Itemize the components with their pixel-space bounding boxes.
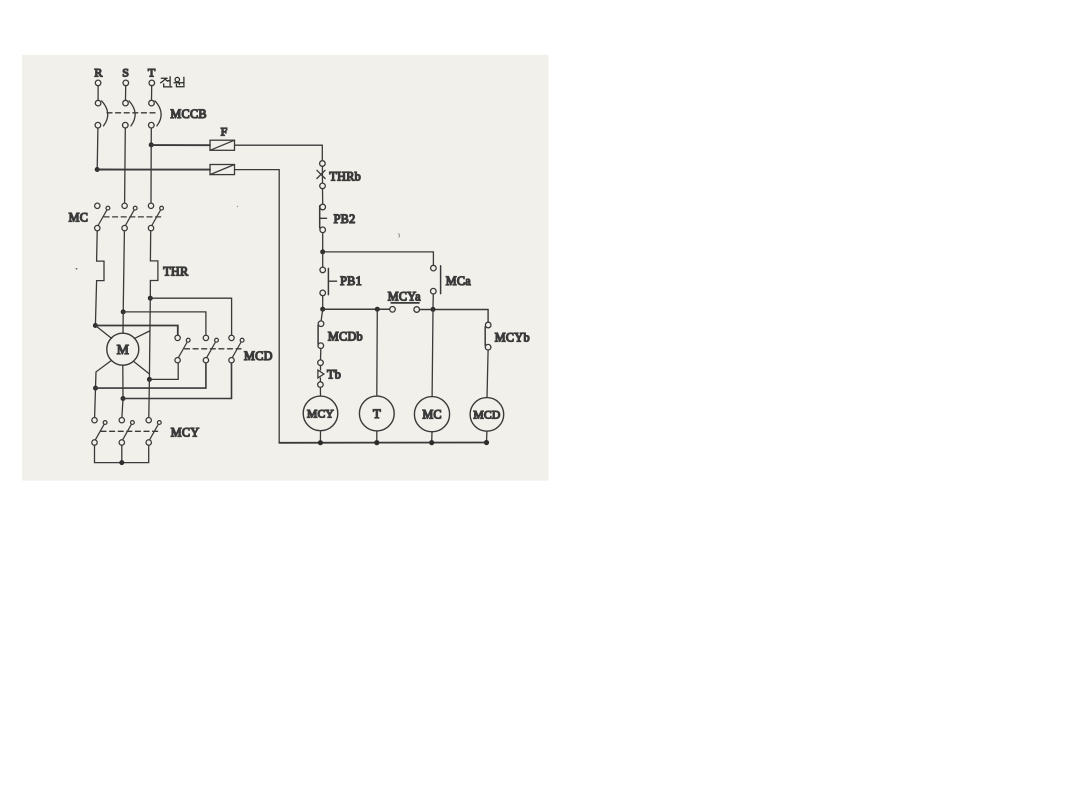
wire motor lead bottom (S phase out) — [122, 365, 124, 398]
wire MC T to heater — [149, 231, 151, 261]
svg-text:MC: MC — [422, 408, 441, 422]
svg-text:PB1: PB1 — [340, 274, 362, 288]
svg-text:Tb: Tb — [327, 368, 341, 382]
node S to MCD pole3 bottom — [121, 396, 126, 401]
svg-text:MCYa: MCYa — [388, 289, 421, 303]
wire MCD coil to bus — [486, 431, 488, 442]
wire node to MCD pole3 bottom — [123, 363, 232, 398]
svg-text:MCa: MCa — [446, 274, 472, 288]
wire MC branch down — [431, 309, 434, 396]
svg-text:T: T — [373, 407, 381, 421]
svg-text:R: R — [94, 65, 102, 79]
wire MC coil to bus — [431, 432, 433, 443]
fuse F1 — [210, 140, 235, 150]
paper speck — [237, 206, 238, 207]
wire fuse F1 to THRb corner — [235, 145, 323, 161]
wire control feed 1 to fuse — [151, 144, 210, 146]
wire node to MCa branch — [323, 252, 434, 265]
wire phase R MCCB to node — [96, 128, 99, 170]
wire node to MCD pole2 bottom — [96, 363, 206, 388]
node MCY star point — [119, 460, 124, 465]
fuse F2 — [210, 165, 235, 175]
wire control feed 2 to fuse — [97, 169, 210, 171]
svg-text:MCDb: MCDb — [328, 330, 363, 344]
svg-text:MCD: MCD — [473, 409, 500, 422]
wire node to MCD pole1 bottom — [149, 363, 178, 379]
heater THR T phase — [150, 261, 158, 281]
coil MCY — [303, 396, 338, 431]
node junction R / control feed 2 — [95, 167, 100, 172]
node rail left — [320, 307, 325, 312]
wire MC S down — [123, 231, 124, 312]
svg-text:MCY: MCY — [307, 408, 334, 421]
wire node R to MCD pole1 top — [95, 326, 177, 336]
node PB2 out — [320, 249, 325, 254]
wire MCDb to Tb — [320, 349, 322, 360]
paper speck — [398, 234, 401, 238]
node S phase to MCD — [121, 309, 126, 314]
contactor MCY pole 2 — [119, 418, 134, 446]
motor M circle — [107, 333, 139, 365]
svg-text:MC: MC — [69, 210, 89, 224]
wire S phase to MCY pole2 — [122, 399, 123, 418]
breaker MCCB pole R — [95, 100, 108, 128]
svg-text:M: M — [117, 342, 129, 357]
wire T coil to bus — [376, 431, 378, 443]
coil MCD — [470, 398, 504, 432]
wire bottom bus — [279, 442, 486, 444]
contactor MCY pole 3 — [146, 418, 161, 446]
breaker MCCB pole S — [123, 100, 136, 128]
node bus MC — [429, 440, 434, 445]
wire motor lead upper-right diagonal — [134, 331, 149, 339]
wire — [125, 86, 127, 101]
wire MCa to rail — [432, 294, 434, 307]
wire motor lead lower-left diagonal — [96, 360, 112, 388]
heater THR R phase — [97, 261, 104, 281]
contact Tb (timer delayed) — [318, 360, 324, 388]
pushbutton PB2 (NC) — [320, 204, 327, 232]
contactor MCD pole 2 — [203, 335, 218, 363]
node rail T branch — [375, 307, 380, 312]
wire THRb to PB2 — [322, 189, 324, 205]
MCY linkage dashed line — [101, 430, 159, 432]
wire PB2 to node — [322, 233, 324, 252]
coil T — [359, 396, 394, 431]
svg-text:MCD: MCD — [244, 349, 273, 363]
breaker MCCB pole T — [149, 100, 162, 128]
contact MCYb (NC) — [485, 322, 491, 350]
node R phase to MCD — [93, 323, 98, 328]
wire node to PB1 — [322, 252, 324, 267]
wire motor lead top (S phase in) — [122, 312, 124, 333]
svg-text:F: F — [221, 125, 228, 139]
node rail MC branch — [431, 307, 436, 312]
MCD linkage dashed line — [185, 348, 242, 350]
wire — [97, 86, 99, 101]
svg-text:MCY: MCY — [171, 425, 200, 439]
contact THRb (thermal relay NC) — [317, 161, 325, 189]
terminal S — [123, 80, 129, 86]
wire heater T to node — [149, 281, 151, 299]
contact MCa (NO auxiliary) — [431, 265, 441, 294]
MCCB linkage dashed line — [107, 112, 157, 114]
node bus MCD — [484, 440, 489, 445]
wire T phase to MCY pole3 — [148, 379, 151, 417]
contactor MCD pole 3 — [229, 335, 244, 363]
wire rail right segment — [420, 310, 489, 323]
svg-text:T: T — [148, 65, 156, 79]
contactor MCY pole 1 — [92, 418, 107, 446]
wire phase T MCCB to node — [150, 128, 152, 145]
wire MCY coil to bus — [319, 431, 321, 443]
svg-text:MCCB: MCCB — [170, 107, 206, 121]
wire heater R to node — [95, 281, 96, 326]
wire phase S down — [124, 128, 127, 203]
wire R phase to MCY pole1 — [94, 388, 97, 417]
contact MCYa (NO) horizontal — [390, 303, 420, 312]
node T phase to MCD — [148, 296, 153, 301]
contactor MC pole R — [95, 203, 110, 231]
wire rail left segment — [323, 308, 390, 310]
wire node S to MCD pole2 top — [123, 312, 206, 335]
label 전원 (power source), hand-drawn hangul — [161, 77, 185, 87]
wire T branch down — [376, 309, 379, 396]
coil MC — [414, 397, 449, 432]
contactor MC pole S — [122, 203, 137, 231]
paper speck — [76, 268, 78, 270]
node T to MCD pole1 bottom — [147, 377, 152, 382]
wire node T to MCD pole3 top — [150, 298, 231, 335]
svg-text:S: S — [122, 65, 129, 79]
contactor MC pole T — [148, 203, 163, 231]
wire MC R to heater — [96, 231, 99, 261]
node junction T / control feed 1 — [149, 142, 154, 147]
wire motor lead upper-left diagonal — [95, 326, 111, 339]
terminal R — [95, 80, 101, 86]
svg-text:THR: THR — [163, 265, 189, 279]
wire phase T node to MC — [150, 145, 152, 203]
MC linkage dashed line — [104, 216, 162, 218]
wire Tb to MCY coil — [319, 387, 321, 396]
node R to MCD pole2 bottom — [93, 386, 98, 391]
wire MCYb to MCD coil — [487, 350, 488, 398]
contactor MCD pole 1 — [175, 335, 190, 363]
wire PB1 to rail — [322, 296, 324, 307]
wire motor lead lower-right diagonal — [134, 362, 149, 374]
wire rail to MCDb — [321, 309, 323, 321]
svg-text:MCYb: MCYb — [495, 331, 530, 345]
wire T phase through motor region — [148, 298, 151, 379]
contact MCDb (NC) — [318, 321, 324, 349]
node bus MCY — [318, 440, 323, 445]
node bus T — [374, 440, 379, 445]
wire fuse F2 to left return line — [235, 170, 280, 443]
wire MCY star bus — [95, 445, 149, 462]
terminal T — [149, 80, 155, 86]
pushbutton PB1 (NO) — [320, 267, 337, 296]
svg-text:PB2: PB2 — [334, 212, 356, 226]
svg-text:THRb: THRb — [329, 169, 361, 183]
wire — [151, 86, 153, 101]
